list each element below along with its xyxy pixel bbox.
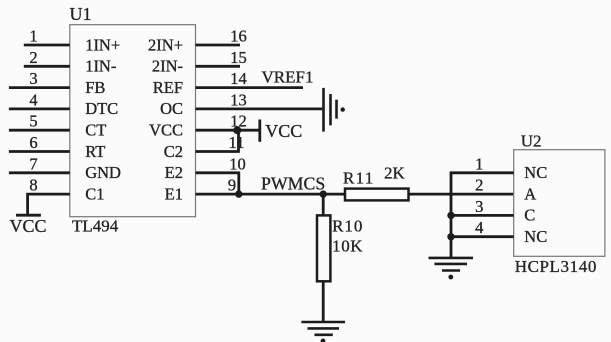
svg-text:R11: R11: [343, 168, 375, 187]
resistor R10 body: [317, 215, 330, 281]
pin 5 wire CT: [9, 129, 70, 132]
svg-text:E2: E2: [165, 163, 183, 182]
svg-text:FB: FB: [85, 78, 105, 97]
VCC power bar right: [258, 120, 261, 142]
svg-text:R10: R10: [332, 217, 363, 236]
U2 pin 4 wire NC bottom: [451, 235, 514, 238]
junction dot U2 pin 3: [447, 212, 454, 219]
pin 12 wire VCC: [196, 129, 259, 132]
svg-text:5: 5: [29, 112, 37, 131]
svg-text:TL494: TL494: [72, 217, 119, 236]
VCC power bar left: [16, 214, 41, 217]
svg-text:NC: NC: [524, 163, 547, 182]
svg-text:2: 2: [475, 176, 483, 195]
svg-text:10K: 10K: [332, 236, 363, 255]
pin 11 wire C2: [196, 130, 239, 151]
junction dot U2 pin 4: [447, 233, 454, 240]
svg-text:DTC: DTC: [85, 99, 118, 118]
ground sideways at pin 13: [324, 88, 345, 132]
svg-text:2: 2: [29, 48, 37, 67]
ground under U2: [429, 258, 474, 280]
svg-text:2IN-: 2IN-: [152, 57, 183, 76]
IC U2 HCPL3140 box: [514, 150, 605, 257]
svg-text:9: 9: [228, 176, 236, 195]
wire R10 top lead: [322, 194, 325, 215]
pin 13 wire OC: [196, 108, 323, 111]
svg-text:2K: 2K: [384, 164, 406, 183]
svg-text:1IN+: 1IN+: [85, 35, 120, 54]
svg-text:RT: RT: [85, 142, 105, 161]
svg-text:4: 4: [475, 218, 483, 237]
svg-text:2IN+: 2IN+: [148, 35, 183, 54]
svg-text:PWMCS: PWMCS: [261, 173, 325, 193]
junction dot pins 11-12: [233, 126, 241, 134]
svg-text:VCC: VCC: [149, 121, 183, 140]
svg-text:C1: C1: [85, 184, 104, 203]
pin 9 wire E1 PWMCS net: [196, 193, 346, 196]
pin 4 wire DTC: [9, 108, 70, 111]
pin 15 wire 2IN-: [196, 65, 241, 68]
svg-text:VREF1: VREF1: [262, 68, 314, 87]
pin 1 wire 1IN+: [24, 44, 70, 47]
svg-text:U1: U1: [70, 4, 92, 24]
wire R11 to U2 pin 2: [409, 193, 514, 196]
wire R10 bottom lead: [322, 281, 325, 321]
pin 14 wire REF to VREF1: [196, 86, 304, 89]
svg-text:E1: E1: [165, 184, 183, 203]
svg-text:15: 15: [230, 48, 247, 67]
svg-text:NC: NC: [524, 227, 547, 246]
ground bottom under R10: [301, 322, 345, 342]
svg-text:REF: REF: [153, 78, 183, 97]
svg-text:1IN-: 1IN-: [85, 57, 116, 76]
svg-text:U2: U2: [521, 132, 542, 151]
resistor R11 body: [345, 189, 409, 201]
svg-text:11: 11: [229, 133, 245, 152]
svg-text:14: 14: [230, 69, 247, 88]
svg-text:A: A: [524, 184, 536, 203]
pin 7 wire GND: [9, 171, 70, 174]
pin 16 wire 2IN+: [196, 44, 241, 47]
svg-text:VCC: VCC: [10, 216, 47, 236]
svg-text:3: 3: [29, 69, 37, 88]
pin 2 wire 1IN-: [24, 65, 70, 68]
svg-text:8: 8: [29, 176, 37, 195]
svg-text:16: 16: [230, 27, 247, 46]
svg-text:C2: C2: [164, 142, 183, 161]
svg-text:HCPL3140: HCPL3140: [515, 257, 597, 276]
pin 3 wire FB: [9, 86, 70, 89]
U2 pin 1 wire NC: [451, 173, 514, 257]
svg-text:OC: OC: [160, 99, 183, 118]
svg-text:1: 1: [29, 27, 37, 46]
pin 8 wire C1 to VCC: [28, 194, 70, 215]
svg-text:VCC: VCC: [265, 121, 302, 141]
svg-text:C: C: [524, 206, 535, 225]
svg-text:13: 13: [230, 90, 247, 109]
svg-text:10: 10: [229, 154, 246, 173]
svg-text:4: 4: [29, 90, 37, 109]
svg-text:3: 3: [475, 197, 483, 216]
svg-text:6: 6: [29, 133, 37, 152]
IC U1 TL494 box: [70, 25, 196, 217]
pin 10 wire E2: [196, 173, 239, 194]
junction dot R10 tap: [320, 190, 327, 197]
U2 pin 3 wire C: [451, 214, 514, 217]
junction dot pins 9-10: [235, 190, 242, 197]
svg-text:GND: GND: [85, 163, 121, 182]
pin 6 wire RT: [9, 150, 70, 153]
svg-text:1: 1: [475, 154, 483, 173]
svg-text:7: 7: [29, 154, 37, 173]
svg-text:CT: CT: [85, 121, 106, 140]
